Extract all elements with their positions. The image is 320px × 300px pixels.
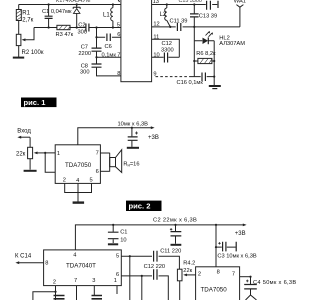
svg-text:R6 8,2к: R6 8,2к: [196, 51, 216, 57]
figure label ris.1: [21, 98, 57, 108]
label C6 0,1mk: [102, 44, 117, 59]
svg-text:WA1: WA1: [234, 0, 246, 4]
svg-text:7: 7: [74, 278, 77, 284]
label R2 100k: [22, 50, 44, 56]
wire pin5 line fig2: [121, 256, 179, 269]
LED HL2: [194, 27, 214, 44]
label K C14: [15, 253, 32, 259]
wire chip3 bottom pin1: [116, 286, 118, 294]
wire input arrow: [20, 136, 30, 138]
svg-text:C1: C1: [120, 229, 127, 235]
svg-text:C12 220: C12 220: [144, 264, 166, 270]
node L2 bottom: [169, 26, 171, 28]
label +3V: [148, 135, 159, 141]
IC label remnant top (cut): [56, 0, 91, 4]
node L2 top: [166, 3, 168, 5]
svg-text:Вход: Вход: [17, 129, 31, 135]
ground (below R2): [13, 57, 24, 59]
IC DA1 receiver (fig.1): [121, 0, 152, 82]
speaker BA Rn=16: [110, 150, 122, 173]
svg-text:4: 4: [73, 252, 76, 258]
wire R2 wiper arm: [25, 28, 35, 40]
node pin6 junction: [141, 275, 143, 277]
inductor L2: [165, 5, 171, 27]
node varactor top: [76, 3, 78, 5]
svg-text:1: 1: [57, 151, 60, 157]
capacitor 10mk (polarized): [128, 128, 138, 147]
svg-text:4: 4: [76, 178, 79, 184]
node C13 top: [193, 3, 195, 5]
potentiometer 22k: [28, 137, 46, 169]
svg-text:C2: C2: [78, 22, 85, 28]
pin 10: [153, 53, 159, 59]
svg-text:2: 2: [53, 280, 56, 286]
node C1 top: [48, 3, 50, 5]
node C13 bottom: [193, 26, 195, 28]
capacitor C16: [191, 73, 214, 82]
pin 8 chip2: [217, 270, 220, 276]
svg-text:Rн=16: Rн=16: [123, 161, 139, 167]
node pin2 branch: [54, 291, 56, 293]
capacitor C6: [107, 34, 110, 42]
label C11 220: [160, 249, 181, 255]
label R1 2,7k: [22, 11, 33, 24]
node cap top: [131, 127, 133, 129]
svg-text:3: 3: [92, 278, 95, 284]
svg-text:TDA7050: TDA7050: [65, 162, 92, 169]
wire vertical chain x96.5: [97, 28, 121, 76]
svg-text:C1 0,047мк: C1 0,047мк: [42, 9, 72, 15]
svg-text:6: 6: [117, 32, 120, 38]
wire vertical from pin5 node: [129, 256, 131, 300]
svg-text:R4.2: R4.2: [183, 261, 195, 267]
wire bottom pins bus: [65, 183, 92, 201]
svg-text:L2: L2: [160, 12, 167, 18]
svg-text:C7: C7: [81, 44, 88, 50]
svg-text:TDA7040T: TDA7040T: [66, 262, 96, 269]
capacitor C4 (polarized): [244, 277, 257, 295]
label R3 47k: [56, 32, 74, 38]
svg-text:300: 300: [78, 30, 88, 36]
label C8 300: [80, 63, 90, 75]
capacitor C11 fig2: [154, 251, 157, 262]
op-amp IC TDA7050 (fig.2): [196, 267, 240, 300]
svg-text:0,1мк: 0,1мк: [102, 53, 117, 59]
svg-text:+3В: +3В: [148, 135, 159, 141]
svg-text:2: 2: [198, 272, 201, 278]
capacitor C2: [86, 24, 89, 32]
speaker (cut at bottom): [246, 295, 257, 300]
label Vhod (input): [17, 129, 31, 135]
wire pin10 line: [152, 56, 180, 58]
node C16 right: [213, 76, 215, 78]
wire pin12 line: [152, 26, 240, 28]
node pin5/C7 chain top: [95, 26, 97, 28]
ground (TDA7050 fig1): [73, 201, 85, 203]
capacitor C3 (polarized): [216, 242, 236, 252]
node C1 top fig2: [112, 224, 114, 226]
node L1 top: [112, 3, 114, 5]
pin 5: [117, 22, 120, 28]
label R6 8,2k: [196, 51, 216, 57]
node C1 bottom junction: [48, 26, 50, 28]
label C11 39: [170, 18, 188, 24]
svg-text:5: 5: [116, 253, 119, 259]
svg-text:22к: 22к: [183, 268, 192, 274]
capacitor C13: [190, 5, 199, 27]
pin 7 chip2: [232, 272, 235, 278]
pin 2 chip2: [198, 272, 201, 278]
svg-text:13: 13: [153, 0, 159, 5]
svg-text:7: 7: [232, 272, 235, 278]
pin 11: [153, 35, 159, 41]
pin 6: [116, 272, 119, 278]
svg-text:7: 7: [117, 52, 120, 58]
inductor L1: [111, 5, 113, 28]
resistor R3: [57, 25, 71, 29]
svg-text:7: 7: [96, 150, 99, 156]
varactor diode VD1: [73, 5, 80, 28]
node varactor bottom: [76, 26, 78, 28]
antenna WA1: [236, 5, 243, 27]
label C4 50mk x 6,3V: [253, 280, 296, 286]
node pin5 junction: [129, 255, 131, 257]
wire pin1 and feedback jog: [45, 153, 55, 172]
svg-text:C4 50мк x 6,3В: C4 50мк x 6,3В: [253, 280, 296, 286]
wire +3V rail fig2: [75, 225, 243, 250]
pin 2: [53, 280, 56, 286]
svg-text:22к: 22к: [16, 151, 26, 157]
label L1: [103, 13, 110, 19]
wire pin7 line chip2: [240, 276, 251, 278]
svg-text:300: 300: [80, 69, 90, 75]
pin 5: [90, 178, 93, 184]
op-amp IC TDA7050 (fig.1): [55, 145, 100, 184]
plus mark: [135, 132, 138, 135]
svg-text:2200: 2200: [78, 51, 91, 57]
wire pin11 line: [152, 39, 180, 57]
wire LED branch verticals: [194, 61, 214, 85]
potentiometer R2: [16, 34, 21, 57]
node R6 right: [213, 60, 215, 62]
pin 7: [96, 150, 99, 156]
node C3 tap: [215, 246, 217, 248]
node rail/pin8: [215, 224, 217, 226]
label C12 3300: [161, 41, 174, 53]
svg-text:C2 22мк x 6,3В: C2 22мк x 6,3В: [153, 218, 197, 224]
svg-text:6: 6: [96, 169, 99, 175]
svg-text:К C14: К C14: [15, 253, 32, 259]
capacitor C12 fig2: [154, 269, 157, 280]
svg-text:L1: L1: [103, 13, 110, 19]
ground (10mk cap): [127, 147, 139, 149]
pin 5: [116, 253, 119, 259]
ground (C2 fig2): [171, 244, 182, 246]
trimmer R4: [177, 269, 195, 300]
svg-text:2: 2: [63, 178, 66, 184]
IC pin 13 label remnant (cut): [153, 0, 159, 5]
node pin7 junction: [95, 56, 97, 58]
pin 12: [153, 21, 159, 27]
node pin6 junction: [95, 36, 97, 38]
figure label ris.2: [126, 201, 162, 211]
label Rn=16: [123, 161, 139, 167]
ground (LED branch): [209, 85, 221, 87]
svg-text:рис. 1: рис. 1: [24, 98, 47, 107]
label C1 0,047mk: [42, 9, 72, 15]
capacitor in rail (coupling): [207, 1, 218, 10]
label 22k: [16, 151, 26, 157]
capacitor C7: [92, 48, 102, 51]
pin 8: [117, 71, 120, 77]
svg-text:C12: C12: [162, 41, 172, 47]
svg-text:АЛ307АМ: АЛ307АМ: [219, 41, 245, 47]
node R6 left: [193, 60, 195, 62]
label R4.2 22k: [183, 261, 195, 274]
plus mark C4: [246, 280, 249, 283]
wire Vcc top: [78, 128, 152, 145]
pin 3: [92, 278, 95, 284]
resistor R6: [194, 41, 214, 64]
pin 4: [76, 178, 79, 184]
pin 6: [117, 32, 120, 38]
ground (C1 fig2): [108, 243, 118, 245]
component remnant below pin3 (cut): [92, 296, 103, 299]
wire pin8 Vcc vertical chip2: [215, 225, 217, 267]
label C2 22mk x 6,3V: [153, 218, 197, 224]
svg-text:3300: 3300: [161, 47, 174, 53]
svg-text:R2 100к: R2 100к: [22, 50, 44, 56]
wire pin6 to speaker: [100, 170, 109, 172]
svg-text:C11 39: C11 39: [170, 18, 188, 24]
svg-text:R1: R1: [22, 11, 30, 17]
pin 7: [74, 278, 77, 284]
svg-text:К174ХА34УМ: К174ХА34УМ: [56, 0, 91, 4]
wire pin7 line: [97, 56, 121, 58]
svg-text:8: 8: [117, 71, 120, 77]
label C3 10mk x 6,3V: [217, 254, 256, 260]
pin 2: [63, 178, 66, 184]
label C2 300: [78, 22, 88, 35]
wire chip3 bottom pin3: [93, 286, 95, 296]
label +3V fig2: [235, 231, 246, 237]
capacitor C1: [45, 5, 53, 28]
pin 9: [153, 71, 156, 77]
svg-text:+3В: +3В: [235, 231, 246, 237]
wire chip3 bottom pin7: [76, 286, 78, 300]
wire top rail left (pin line into IC left side): [19, 4, 121, 6]
capacitor C2 fig2: [171, 225, 182, 244]
ground (pot): [24, 170, 37, 172]
svg-text:5: 5: [90, 178, 93, 184]
pin 1: [114, 278, 117, 284]
node wiper junction: [44, 152, 46, 154]
wire pin5 line left: [34, 27, 121, 29]
component remnant below pin2 (cut): [54, 296, 65, 299]
label C13 39: [199, 13, 217, 19]
svg-text:10мк x 6,3В: 10мк x 6,3В: [118, 122, 149, 128]
label C7 2200: [78, 44, 91, 57]
label WA1 (cut): [234, 0, 246, 4]
svg-text:2,7к: 2,7к: [22, 17, 33, 23]
capacitor C1 fig2: [108, 225, 119, 243]
pin 8: [45, 261, 48, 267]
label C16 0,1mk: [177, 80, 204, 86]
plus mark C3: [218, 242, 220, 244]
capacitor C8: [92, 64, 102, 67]
node C2 top fig2: [174, 224, 176, 226]
wire pin7 to speaker: [100, 152, 109, 154]
svg-text:10: 10: [120, 237, 126, 243]
pin 7: [117, 52, 120, 58]
svg-text:8: 8: [45, 261, 48, 267]
svg-text:C16 0,1мк: C16 0,1мк: [177, 80, 204, 86]
svg-text:C13 39: C13 39: [199, 13, 217, 19]
label C12 220: [144, 264, 166, 270]
label 10mk x 6,3V: [118, 122, 149, 128]
wire chip3 bottom pin2: [33, 286, 56, 300]
wire pin6 line fig2: [121, 276, 168, 300]
svg-text:рис. 2: рис. 2: [129, 201, 151, 210]
svg-text:C11 220: C11 220: [160, 249, 181, 255]
svg-text:1: 1: [114, 278, 117, 284]
wire pin6 line: [97, 36, 121, 38]
wire rail right (pin13 line): [152, 4, 218, 6]
pin 1: [57, 151, 60, 157]
capacitor label remnant top (cut): [179, 0, 202, 4]
resistor R1: [16, 5, 21, 35]
cut wire stub above chip1 left corner: [118, 0, 119, 2]
label HL2 AL307AM: [219, 36, 245, 47]
pin 6: [96, 169, 99, 175]
svg-text:С15 3300: С15 3300: [179, 0, 202, 4]
svg-text:5: 5: [117, 22, 120, 28]
capacitor C11 (fig.1): [177, 23, 180, 31]
plus mark C2: [170, 228, 172, 230]
node L1 bottom: [112, 26, 114, 28]
wire pin9 line (dashed): [156, 76, 192, 78]
wire vertical from pin6 node: [141, 276, 143, 300]
label L2: [160, 12, 167, 18]
svg-text:C6: C6: [105, 44, 112, 50]
svg-text:C3 10мк x 6,3В: C3 10мк x 6,3В: [217, 254, 256, 260]
svg-text:8: 8: [217, 270, 220, 276]
wire pin8 arrow to C14: [18, 262, 44, 264]
capacitor C12 (fig.1): [164, 53, 167, 63]
pin 4: [73, 252, 76, 258]
label C1 10: [120, 229, 127, 243]
IC TDA7040T: [44, 250, 122, 286]
svg-text:R3 47к: R3 47к: [56, 32, 74, 38]
node C4 top: [249, 276, 251, 278]
svg-text:TDA7050: TDA7050: [201, 287, 228, 294]
